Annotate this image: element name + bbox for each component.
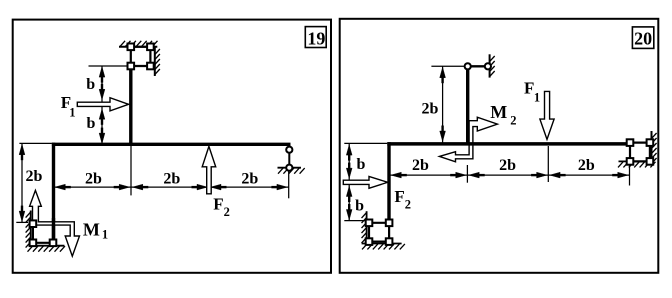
svg-text:b: b — [357, 156, 366, 173]
svg-text:M: M — [490, 102, 507, 122]
svg-text:F: F — [213, 194, 223, 213]
svg-text:19: 19 — [307, 28, 325, 48]
svg-text:2: 2 — [224, 205, 230, 219]
svg-text:b: b — [355, 198, 364, 215]
svg-text:2b: 2b — [163, 171, 180, 188]
svg-text:2: 2 — [510, 113, 516, 127]
svg-text:2: 2 — [405, 198, 411, 212]
svg-text:b: b — [86, 115, 95, 132]
svg-text:1: 1 — [102, 228, 108, 242]
svg-text:2b: 2b — [499, 157, 516, 174]
svg-text:2b: 2b — [85, 171, 102, 188]
svg-text:2b: 2b — [578, 157, 595, 174]
svg-text:F: F — [524, 78, 534, 97]
svg-text:1: 1 — [534, 91, 540, 105]
svg-text:F: F — [394, 187, 404, 206]
svg-text:M: M — [83, 219, 100, 239]
svg-text:2b: 2b — [412, 157, 429, 174]
svg-text:2b: 2b — [422, 101, 439, 118]
svg-text:1: 1 — [69, 106, 75, 120]
svg-text:2b: 2b — [25, 168, 42, 185]
svg-text:b: b — [86, 76, 95, 93]
svg-text:20: 20 — [634, 28, 652, 48]
svg-text:2b: 2b — [241, 171, 258, 188]
